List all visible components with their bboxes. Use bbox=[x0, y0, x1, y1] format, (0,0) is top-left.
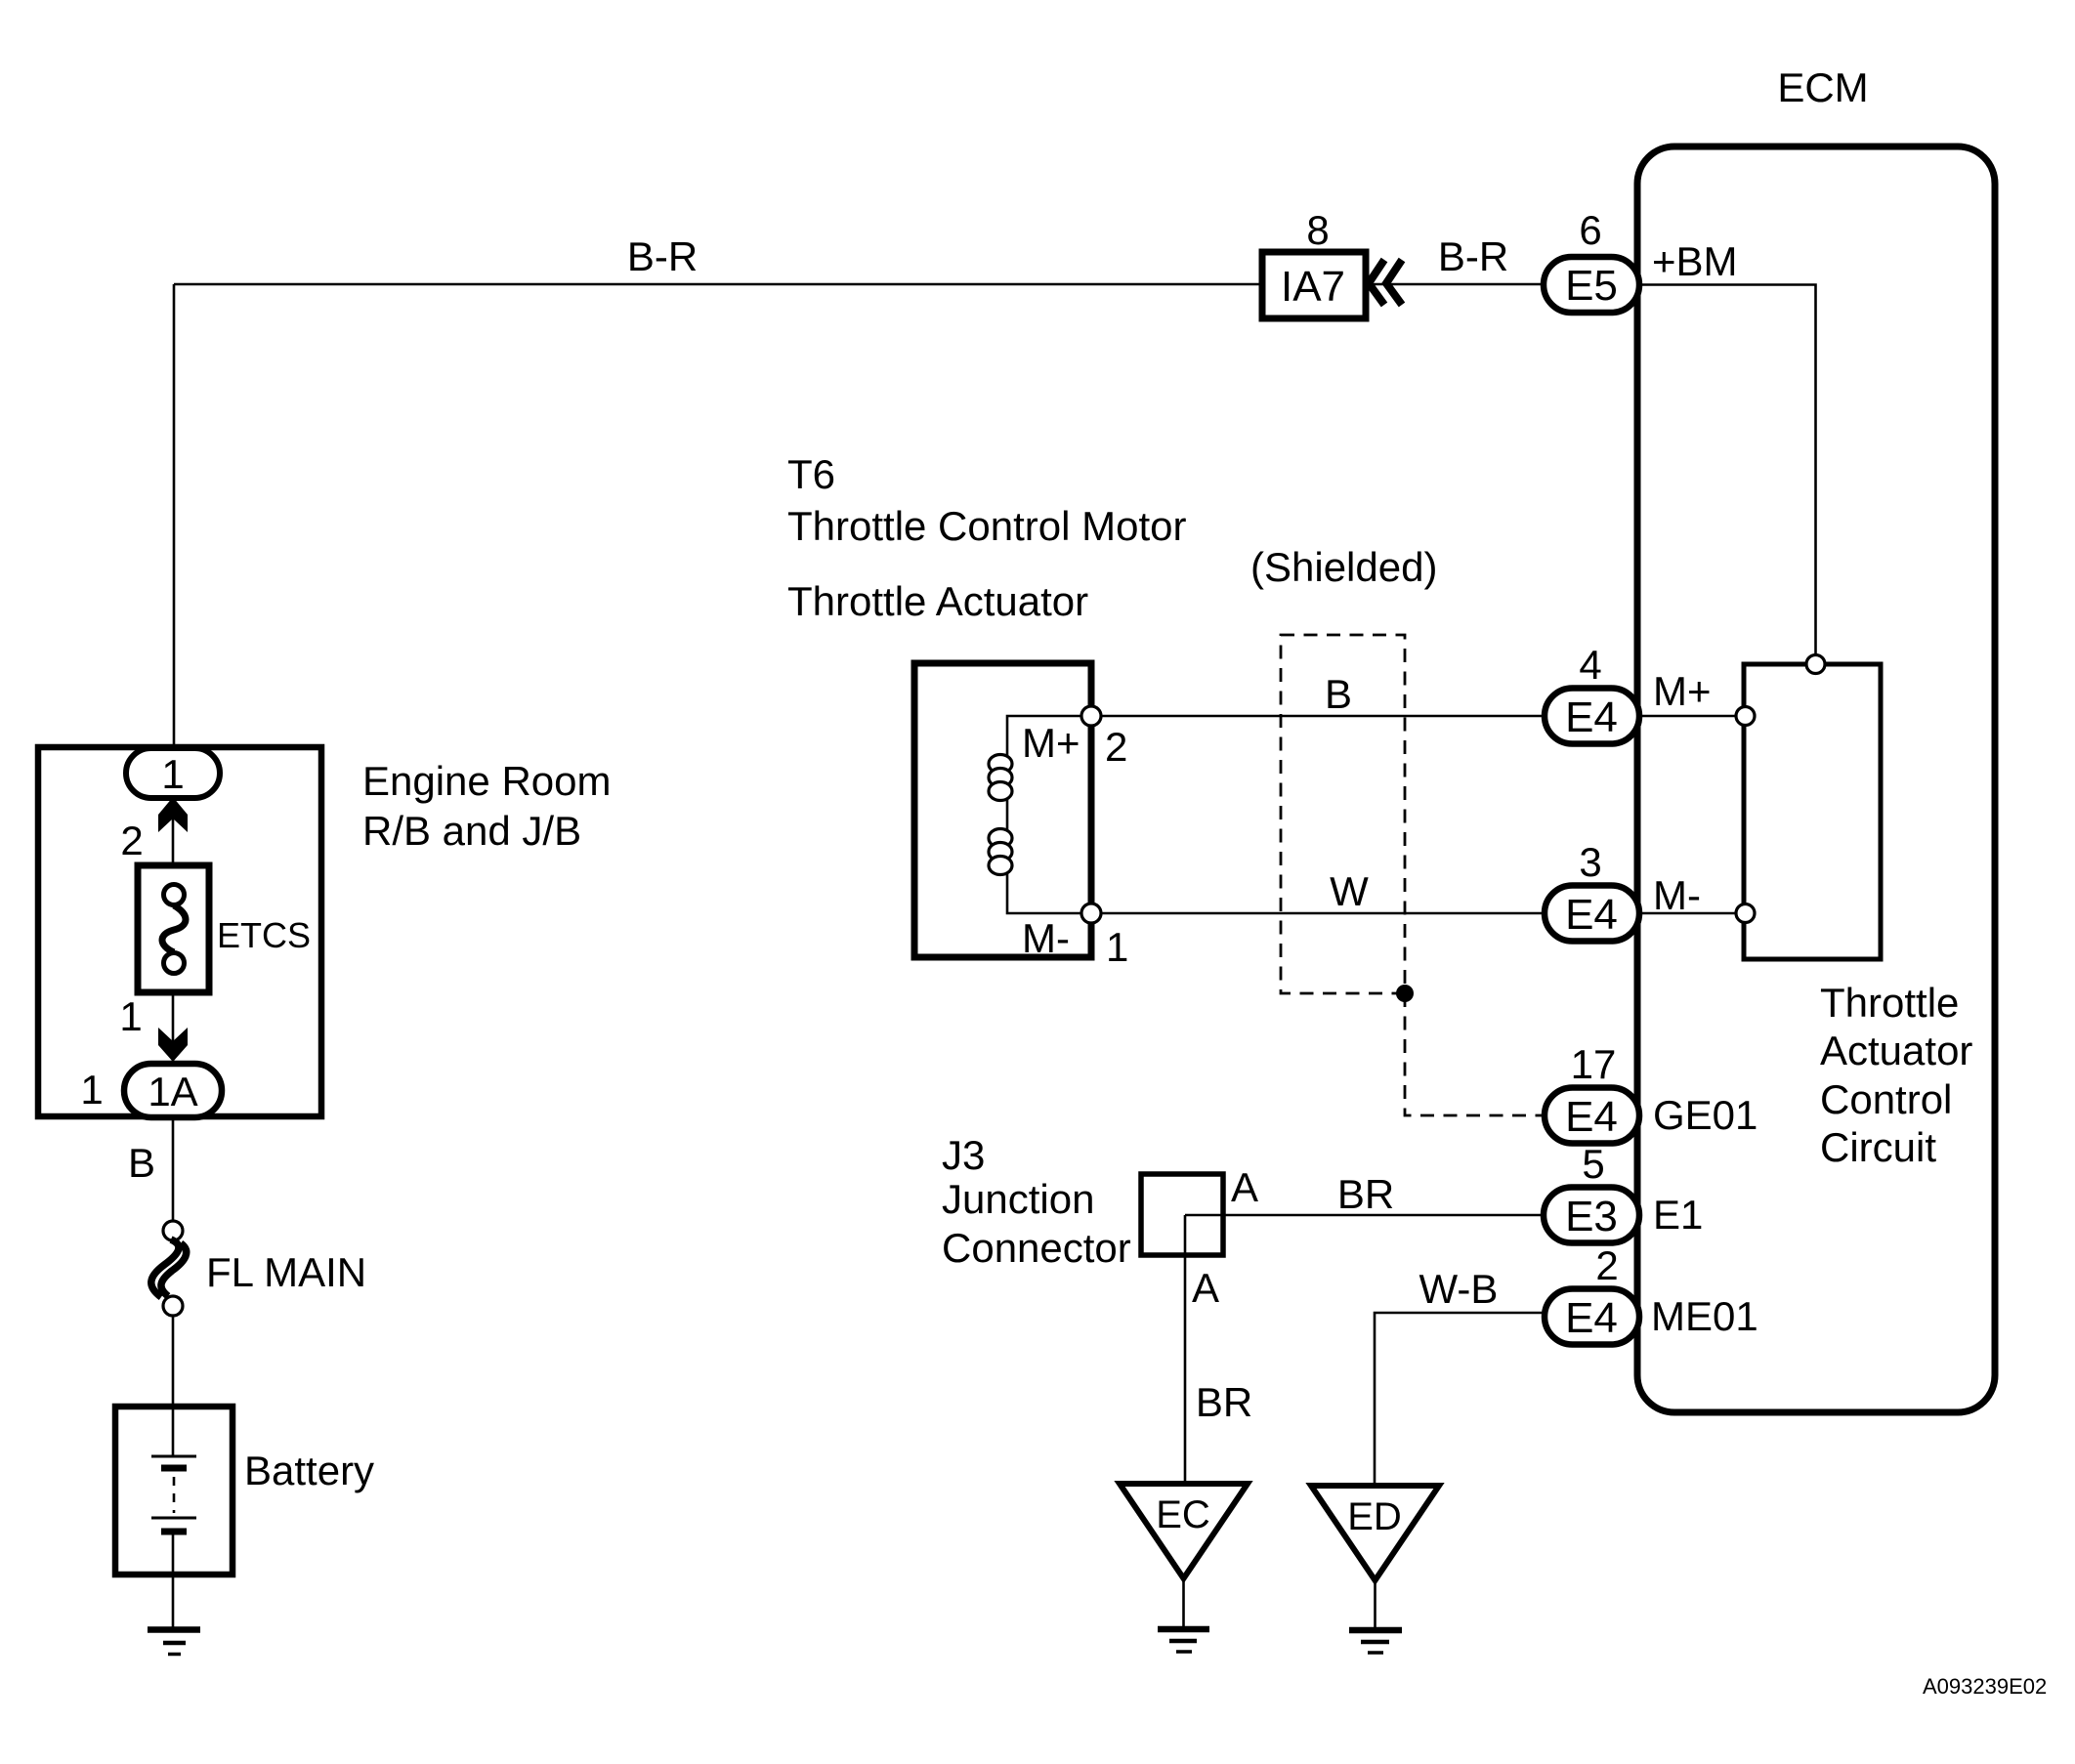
coil of motor bbox=[989, 716, 1082, 913]
svg-text:W: W bbox=[1330, 868, 1369, 914]
arrow down bbox=[158, 1028, 188, 1062]
svg-text:A: A bbox=[1231, 1164, 1258, 1210]
svg-text:+BM: +BM bbox=[1652, 238, 1738, 284]
connector E4 pin 17 GE01 bbox=[1545, 1041, 1757, 1144]
wire B to FL MAIN bbox=[172, 1117, 175, 1221]
svg-text:Connector: Connector bbox=[942, 1225, 1131, 1271]
svg-text:GE01: GE01 bbox=[1653, 1092, 1757, 1138]
shield junction dot bbox=[1396, 985, 1414, 1002]
svg-text:Control: Control bbox=[1820, 1076, 1952, 1122]
connector E4 pin 2 ME01 bbox=[1545, 1242, 1758, 1345]
svg-text:ED: ED bbox=[1347, 1495, 1402, 1538]
svg-text:B-R: B-R bbox=[627, 233, 698, 279]
svg-text:17: 17 bbox=[1571, 1041, 1617, 1087]
svg-text:J3: J3 bbox=[942, 1132, 985, 1178]
connector IA7 pin 8 bbox=[1262, 207, 1366, 318]
connector E3 pin 5 E1 bbox=[1544, 1141, 1703, 1243]
svg-text:1: 1 bbox=[1106, 924, 1128, 970]
Engine Room R/B and J/B box bbox=[38, 747, 611, 1116]
connector E4 pin 4 M+ bbox=[1545, 642, 1712, 744]
svg-text:ME01: ME01 bbox=[1651, 1293, 1758, 1339]
ground connector ED bbox=[1311, 1486, 1439, 1653]
svg-text:B: B bbox=[1325, 671, 1352, 717]
wire J3 down to EC bbox=[1184, 1215, 1187, 1485]
svg-text:1A: 1A bbox=[148, 1069, 197, 1114]
chevrons at IA7 bbox=[1369, 260, 1402, 305]
svg-text:Circuit: Circuit bbox=[1820, 1124, 1936, 1170]
shield dashed box bbox=[1250, 544, 1437, 993]
svg-text:E4: E4 bbox=[1565, 1294, 1618, 1342]
svg-text:1: 1 bbox=[161, 751, 184, 797]
ground battery bbox=[148, 1630, 200, 1655]
terminal 1 of motor bbox=[1081, 903, 1101, 923]
dashed wire shield to GE01 bbox=[1405, 993, 1542, 1115]
svg-text:B-R: B-R bbox=[1438, 233, 1508, 279]
wire inside engine room box bbox=[172, 798, 175, 1063]
svg-text:E1: E1 bbox=[1653, 1192, 1703, 1238]
svg-text:Actuator: Actuator bbox=[1820, 1028, 1972, 1073]
svg-text:Throttle: Throttle bbox=[1820, 980, 1959, 1026]
connector pill 1 bbox=[126, 748, 220, 798]
svg-text:T6: T6 bbox=[787, 451, 835, 497]
svg-text:FL MAIN: FL MAIN bbox=[206, 1249, 366, 1295]
wire M- internal bbox=[1640, 912, 1736, 915]
svg-text:BR: BR bbox=[1337, 1171, 1394, 1217]
fuse ETCS bbox=[138, 865, 311, 992]
wire W motor to E4 bbox=[1101, 912, 1545, 915]
throttle actuator control circuit box U1 bbox=[1744, 664, 1972, 1170]
terminal M+ of U1 bbox=[1736, 707, 1755, 726]
terminal top of U1 bbox=[1806, 655, 1825, 674]
svg-text:M-: M- bbox=[1653, 872, 1701, 918]
junction connector J3 bbox=[942, 1132, 1223, 1271]
svg-text:6: 6 bbox=[1579, 207, 1601, 253]
svg-text:Engine Room: Engine Room bbox=[362, 758, 611, 804]
svg-text:E4: E4 bbox=[1565, 693, 1618, 741]
svg-text:4: 4 bbox=[1579, 642, 1601, 688]
svg-text:W-B: W-B bbox=[1419, 1266, 1499, 1312]
svg-text:A093239E02: A093239E02 bbox=[1923, 1674, 2047, 1699]
svg-text:R/B and J/B: R/B and J/B bbox=[362, 808, 581, 854]
svg-text:B: B bbox=[128, 1140, 155, 1186]
terminal M- of U1 bbox=[1736, 904, 1755, 923]
svg-text:M+: M+ bbox=[1022, 720, 1080, 766]
svg-text:Throttle Control Motor: Throttle Control Motor bbox=[787, 503, 1186, 549]
wire battery to ground bbox=[172, 1575, 175, 1627]
svg-text:E3: E3 bbox=[1565, 1193, 1618, 1240]
throttle control motor T6 box bbox=[914, 663, 1128, 970]
svg-text:E5: E5 bbox=[1565, 262, 1618, 310]
svg-text:EC: EC bbox=[1156, 1493, 1210, 1536]
svg-text:M-: M- bbox=[1022, 915, 1070, 961]
T6 labels bbox=[787, 451, 1186, 624]
svg-text:ECM: ECM bbox=[1777, 64, 1868, 110]
connector pill 1A bbox=[124, 1064, 222, 1117]
svg-text:BR: BR bbox=[1196, 1379, 1252, 1425]
wire +BM internal bbox=[1640, 285, 1816, 656]
wire B-R left segment bbox=[174, 283, 1262, 286]
svg-text:5: 5 bbox=[1582, 1141, 1604, 1187]
svg-text:M+: M+ bbox=[1653, 668, 1712, 714]
svg-text:ETCS: ETCS bbox=[217, 915, 311, 955]
svg-text:2: 2 bbox=[1105, 724, 1127, 770]
svg-text:3: 3 bbox=[1579, 839, 1601, 885]
terminal 2 of motor bbox=[1081, 706, 1101, 726]
ground connector EC bbox=[1120, 1484, 1248, 1652]
connector E5 pin 6 +BM bbox=[1544, 207, 1738, 313]
wire BR J3 to E3 bbox=[1185, 1214, 1544, 1217]
svg-text:Battery: Battery bbox=[244, 1448, 374, 1493]
connector E4 pin 3 M- bbox=[1545, 839, 1701, 942]
svg-text:E4: E4 bbox=[1565, 1093, 1618, 1141]
svg-text:2: 2 bbox=[120, 818, 143, 863]
wire M+ internal bbox=[1640, 715, 1736, 718]
wire B-R right segment bbox=[1366, 283, 1544, 286]
svg-text:(Shielded): (Shielded) bbox=[1250, 544, 1437, 590]
svg-text:1: 1 bbox=[119, 993, 142, 1039]
wire vertical to engine room bbox=[173, 284, 176, 748]
svg-text:E4: E4 bbox=[1565, 891, 1618, 939]
svg-text:1: 1 bbox=[80, 1067, 103, 1113]
battery bbox=[115, 1407, 374, 1575]
wire W-B to ME01 bbox=[1375, 1313, 1546, 1486]
svg-text:A: A bbox=[1192, 1265, 1219, 1311]
svg-text:8: 8 bbox=[1306, 207, 1329, 253]
arrow up bbox=[158, 797, 188, 832]
wire B motor to E4 bbox=[1101, 715, 1545, 718]
svg-text:Junction: Junction bbox=[942, 1176, 1094, 1222]
wire FL MAIN to battery bbox=[172, 1315, 175, 1407]
svg-text:IA7: IA7 bbox=[1281, 263, 1345, 311]
svg-text:Throttle Actuator: Throttle Actuator bbox=[787, 578, 1088, 624]
ECM box bbox=[1637, 64, 1995, 1412]
svg-text:2: 2 bbox=[1595, 1242, 1618, 1288]
fusible link FL MAIN bbox=[151, 1221, 366, 1316]
